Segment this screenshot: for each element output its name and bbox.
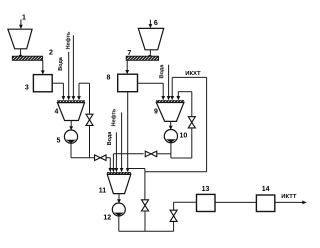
recycle wire to mixer 4 <box>78 83 80 97</box>
pump 12 <box>112 203 125 216</box>
wire bin 8 to mixer 11 <box>127 92 129 169</box>
svg-text:10: 10 <box>180 133 188 140</box>
wire pump 10 to discharge line <box>170 143 172 159</box>
wire pump 12 to transfer line <box>118 216 120 232</box>
oil inlet line left <box>72 35 74 97</box>
svg-text:1: 1 <box>22 14 26 21</box>
IKHT riser bottom run <box>145 171 207 173</box>
svg-text:Нефть: Нефть <box>110 108 117 126</box>
wire mixer 4 to pump 5 <box>70 121 72 128</box>
svg-text:Вода: Вода <box>159 64 165 79</box>
svg-text:Нефть: Нефть <box>65 31 72 49</box>
wire bin 8 to mixer 9 <box>138 82 164 84</box>
pump 5 <box>64 130 77 143</box>
valve D2 on feed to unit 13 <box>173 221 175 231</box>
wire valve to pump 10 discharge <box>191 128 193 158</box>
hopper 6 <box>138 28 163 49</box>
product outlet IKTT <box>275 201 303 203</box>
pump 10 discharge run <box>171 157 192 159</box>
svg-text:11: 11 <box>99 188 107 195</box>
hopper 6 outlet <box>149 50 151 55</box>
svg-text:13: 13 <box>202 186 210 193</box>
svg-text:Вода: Вода <box>107 131 113 146</box>
feed arrow 6 <box>149 20 151 26</box>
wire mixer 11 to pump 12 <box>118 194 120 200</box>
svg-text:5: 5 <box>57 138 61 145</box>
wire unit 13 to unit 14 <box>215 201 256 203</box>
svg-text:7: 7 <box>127 50 131 57</box>
svg-text:2: 2 <box>49 50 53 57</box>
wire bin 3 to mixer 4 <box>52 82 63 84</box>
transfer line to valve D2 <box>119 230 174 232</box>
wire valve to line L1 <box>89 125 91 157</box>
recycle valve of mixer 4 <box>86 114 93 125</box>
water inlet line center <box>115 132 117 169</box>
bin 8 <box>118 74 138 92</box>
branch wire to valve D1 <box>128 168 145 170</box>
feed arrow 1 <box>20 20 22 27</box>
mixer 9 <box>156 100 184 102</box>
IKHT recycle line riser <box>206 77 208 171</box>
svg-text:ИКТТ: ИКТТ <box>281 194 297 200</box>
unit 14 <box>256 195 274 212</box>
conveyor 2 <box>12 56 42 60</box>
svg-text:14: 14 <box>262 186 270 193</box>
svg-text:Вода: Вода <box>58 56 64 71</box>
wire L2 to mixer 11 <box>113 153 143 155</box>
valve B on line L2 <box>145 151 157 157</box>
wire valve D1 to transfer line <box>144 211 146 231</box>
recycle valve of mixer 9 <box>188 117 195 128</box>
line L2 to valve B <box>157 153 171 155</box>
wire L1 to mixer 11 <box>106 157 110 159</box>
unit 13 <box>197 194 216 211</box>
hopper 1 <box>8 29 32 49</box>
wire conveyor 7 to bin 8 <box>126 60 128 71</box>
svg-text:ИКХТ: ИКХТ <box>185 71 201 77</box>
svg-text:8: 8 <box>107 75 111 82</box>
valve D1 bypass <box>142 200 149 211</box>
line L1 pump 5 discharge <box>71 157 94 159</box>
hopper 1 outlet <box>20 49 22 55</box>
wire pump 5 to line L1 <box>70 143 72 158</box>
wire conveyor 2 to bin 3 <box>42 60 44 71</box>
svg-text:3: 3 <box>25 85 29 92</box>
pump 10 <box>164 130 177 143</box>
mixer 11 <box>107 172 131 174</box>
mixer 4 <box>57 101 84 103</box>
recycle wire to mixer 9 <box>177 92 179 97</box>
valve A on line L1 <box>95 155 107 161</box>
svg-text:6: 6 <box>154 20 158 27</box>
wire mixer 9 to pump 10 <box>170 121 172 126</box>
svg-text:12: 12 <box>103 215 111 222</box>
wire valve D2 to unit 13 <box>173 202 175 210</box>
water inlet line left <box>68 52 70 97</box>
svg-text:9: 9 <box>154 109 158 116</box>
svg-text:4: 4 <box>55 109 59 116</box>
water inlet line right <box>168 65 170 97</box>
oil inlet line center <box>121 112 123 168</box>
conveyor 7 <box>126 56 158 60</box>
bin 3 <box>33 75 52 92</box>
